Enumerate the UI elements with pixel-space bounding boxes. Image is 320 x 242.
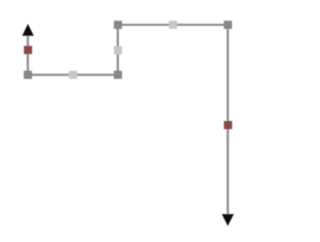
end arrowhead (down) — [222, 214, 234, 226]
bend handle V1 — [24, 71, 32, 79]
bend handle V4 — [224, 21, 232, 29]
wire segment 1 (left vertical, start arrow to bend V1) — [27, 29, 29, 75]
bend handle V3 — [114, 21, 122, 29]
midpoint handle segment 2 — [69, 71, 77, 79]
midpoint handle segment 4 — [169, 21, 177, 29]
endpoint handle segment 5 (maroon) — [224, 121, 232, 129]
wire segment 2 (bottom horizontal, V1 to V2) — [28, 74, 118, 76]
wire segment 5 (right vertical, V4 to end arrow) — [227, 25, 229, 220]
bend handle V2 — [114, 71, 122, 79]
wire segment 4 (top horizontal, V3 to V4) — [118, 24, 228, 26]
wire segment 3 (middle vertical, V2 to V3) — [117, 25, 119, 75]
endpoint handle segment 1 (maroon) — [24, 46, 32, 54]
start arrowhead (up) — [22, 24, 34, 36]
midpoint handle segment 3 — [114, 46, 122, 54]
